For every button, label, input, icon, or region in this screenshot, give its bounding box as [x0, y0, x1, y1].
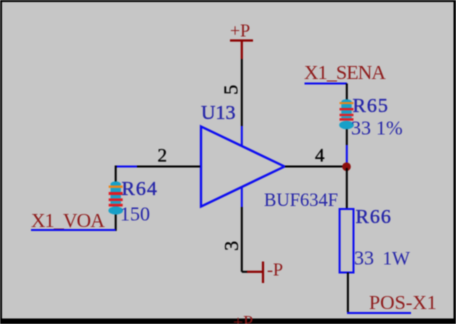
svg-text:4: 4: [315, 146, 325, 167]
wire POS-X1: [347, 312, 411, 314]
svg-text:33: 33: [354, 247, 374, 269]
svg-text:+P: +P: [230, 20, 250, 40]
svg-text:R64: R64: [122, 178, 158, 200]
wire X1_SENA: [305, 83, 348, 85]
svg-text:3: 3: [221, 241, 243, 251]
svg-text:U13: U13: [201, 102, 235, 124]
svg-text:+P: +P: [233, 312, 253, 324]
resistor R66: [340, 168, 354, 312]
pin 2 wire: [137, 166, 200, 168]
resistor R65: [339, 84, 354, 146]
wire R65 to junction: [346, 145, 348, 163]
svg-text:R65: R65: [353, 95, 389, 117]
svg-text:2: 2: [158, 146, 168, 167]
op-amp U13: [201, 127, 285, 207]
svg-text:-P: -P: [267, 260, 283, 280]
wire to pin 2: [116, 166, 137, 168]
pin 3 stub: [241, 187, 243, 207]
power -P port: [247, 260, 283, 283]
pin 3 wire: [242, 207, 248, 272]
pin 4 wire: [285, 166, 347, 168]
svg-text:150: 150: [120, 204, 150, 226]
svg-text:R66: R66: [356, 206, 392, 228]
svg-text:X1_SENA: X1_SENA: [304, 62, 386, 84]
svg-text:BUF634F: BUF634F: [264, 191, 338, 211]
pin 5 wire: [241, 59, 243, 126]
pin 5 stub: [241, 126, 243, 146]
svg-text:1W: 1W: [383, 248, 411, 269]
junction dot: [342, 162, 351, 171]
svg-text:33 1%: 33 1%: [351, 118, 403, 140]
power +P port: [230, 20, 253, 59]
wire X1_VOA: [31, 229, 116, 231]
svg-text:5: 5: [221, 85, 243, 95]
resistor R64: [108, 166, 123, 232]
svg-text:POS-X1: POS-X1: [369, 292, 437, 314]
svg-text:X1_VOA: X1_VOA: [31, 210, 105, 232]
